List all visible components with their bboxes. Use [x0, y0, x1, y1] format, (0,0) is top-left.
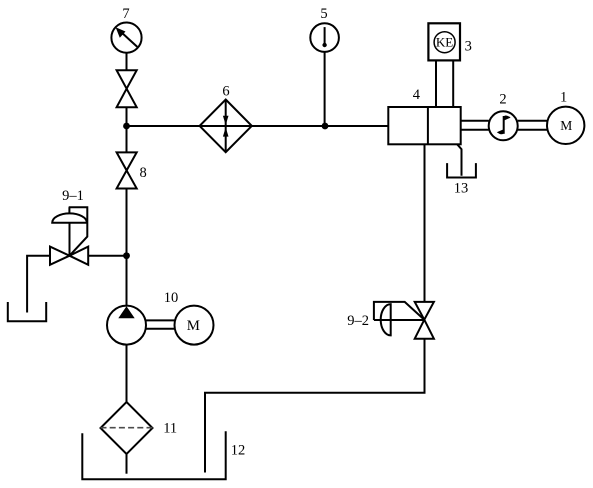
- svg-text:4: 4: [413, 87, 421, 103]
- filter 6: [200, 100, 252, 153]
- svg-text:6: 6: [222, 84, 229, 100]
- wire double line 4 to flow meter 2: [461, 121, 489, 130]
- wire valve 9-2 to tank 12: [205, 339, 425, 473]
- svg-text:8: 8: [140, 165, 147, 181]
- wire 9-1 to left tank: [27, 256, 50, 313]
- wire block 4 down to valve 9-2: [424, 144, 426, 302]
- svg-text:12: 12: [231, 443, 246, 459]
- node junction top mid: [322, 123, 329, 130]
- svg-text:11: 11: [163, 420, 177, 436]
- node junction left mid: [123, 252, 130, 259]
- motor M of pump 10: [175, 306, 214, 345]
- wire double line pump to motor: [146, 320, 175, 328]
- svg-text:2: 2: [499, 91, 506, 107]
- svg-text:9–1: 9–1: [62, 188, 84, 204]
- gauge 5: [310, 23, 339, 52]
- wire block 4 to tank 13: [457, 144, 461, 175]
- svg-text:KE: KE: [436, 35, 453, 50]
- svg-text:10: 10: [164, 290, 179, 306]
- svg-text:1: 1: [560, 89, 567, 105]
- node junction top-left: [123, 123, 130, 130]
- svg-text:7: 7: [122, 6, 129, 22]
- wire double line 2 to motor 1: [518, 121, 547, 130]
- wire valve 8 to pump: [126, 189, 128, 306]
- wire pump to filter 11: [126, 345, 128, 402]
- wire gauge 5 down: [324, 52, 326, 126]
- wire gauge7 to valve: [126, 53, 128, 70]
- pump 10: [107, 306, 146, 345]
- wire filter 11 to tank 12: [126, 454, 128, 474]
- wire main horizontal line: [127, 125, 389, 127]
- svg-text:9–2: 9–2: [347, 313, 369, 329]
- wire valve to valve 8: [126, 107, 128, 152]
- tank left of 9-1: [8, 302, 46, 321]
- gauge 7: [111, 22, 141, 52]
- block 4: [388, 107, 460, 144]
- svg-text:M: M: [560, 118, 572, 133]
- motor 1: [547, 107, 584, 144]
- wire 9-1 to junction: [88, 255, 126, 257]
- svg-text:5: 5: [320, 6, 327, 22]
- svg-text:13: 13: [454, 180, 469, 196]
- tank 12: [82, 431, 225, 479]
- shutoff valve below gauge 7: [117, 70, 137, 107]
- flow meter 2: [489, 111, 518, 140]
- svg-text:3: 3: [465, 39, 472, 55]
- relief valve 9-1: [50, 207, 88, 265]
- svg-text:M: M: [187, 318, 200, 334]
- wire double line 3 to 4: [436, 60, 453, 107]
- unit 3 box with KE: [428, 23, 460, 60]
- valve 9-2: [374, 302, 434, 339]
- tank 13: [447, 163, 476, 177]
- filter 11: [101, 402, 153, 454]
- valve 8: [117, 152, 137, 188]
